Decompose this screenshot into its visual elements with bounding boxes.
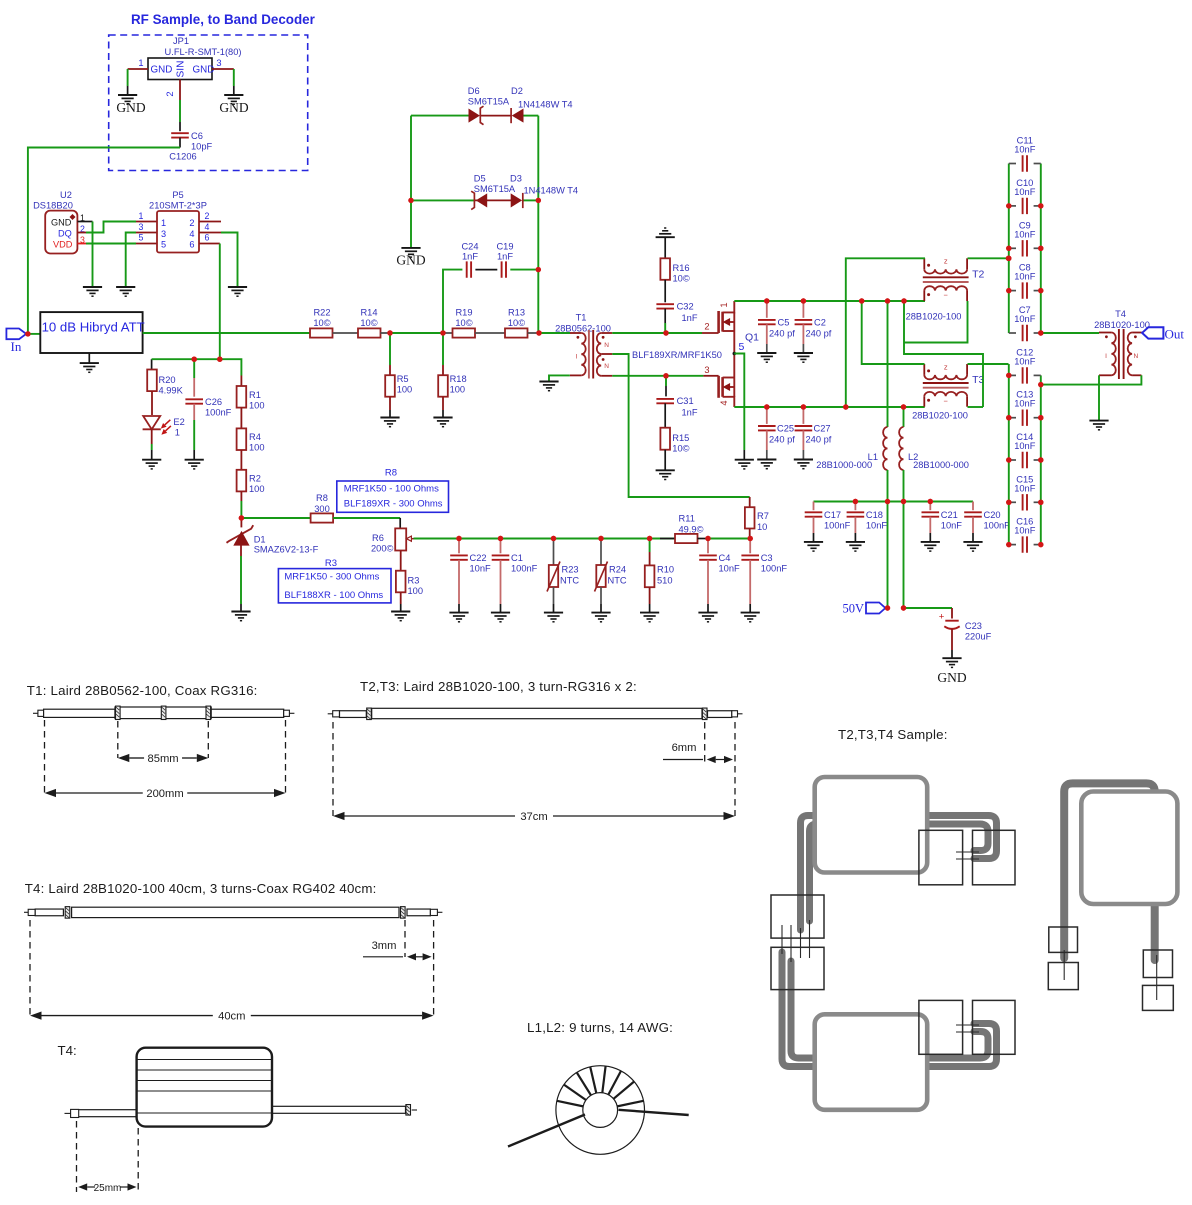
svg-text:10nF: 10nF (941, 521, 963, 531)
wire C32 to row (664, 309, 666, 323)
dimension T4 dashed lines (29, 920, 31, 1016)
junction 50V a (885, 605, 890, 610)
svg-text:6: 6 (205, 233, 210, 243)
wire JP1 pin3 (212, 68, 234, 70)
svg-text:JP1: JP1 (173, 36, 189, 46)
svg-text:T4: T4 (1115, 309, 1126, 319)
capacitor C24 1nF (467, 261, 471, 277)
port Out (1142, 327, 1163, 338)
svg-text:NTC: NTC (608, 576, 627, 586)
svg-text:100: 100 (450, 385, 466, 395)
ground Q1 source (735, 460, 754, 469)
resistor R13 10 (505, 328, 528, 337)
svg-text:6: 6 (189, 240, 194, 250)
svg-text:T2: T2 (972, 268, 984, 280)
wire top diode row (411, 115, 469, 117)
svg-text:10©: 10© (508, 318, 525, 328)
svg-text:100nF: 100nF (984, 521, 1011, 531)
resistor R10 510 (649, 539, 651, 553)
ground C3 (741, 613, 760, 622)
svg-text:10: 10 (757, 522, 767, 532)
svg-text:10nF: 10nF (1014, 526, 1036, 536)
svg-text:R6: R6 (372, 533, 384, 543)
junction bank2 right (1038, 500, 1043, 505)
resistor R3 100 (396, 571, 406, 593)
svg-text:D2: D2 (511, 86, 523, 96)
junction bank feed point (1006, 256, 1011, 261)
svg-text:10©: 10© (455, 318, 472, 328)
junction crossover node (901, 298, 906, 303)
capacitor C17 100nF (813, 502, 815, 511)
junction C31 node (663, 373, 668, 378)
svg-text:T2,T3,T4 Sample:: T2,T3,T4 Sample: (838, 727, 948, 742)
svg-text:200mm: 200mm (146, 788, 183, 800)
ground R3 (391, 612, 410, 621)
svg-text:Q1: Q1 (745, 332, 759, 344)
svg-text:C2: C2 (814, 318, 826, 328)
junction node C26 (192, 357, 197, 362)
svg-text:10nF: 10nF (1014, 145, 1036, 155)
drawing L1L2 toroid (508, 1066, 689, 1155)
wire lower bank left rail (1008, 364, 1010, 545)
wire decoupling row (814, 501, 904, 503)
svg-text:C3: C3 (761, 553, 773, 563)
resistor R20 4.99K (147, 370, 157, 392)
wire R22-R14 (333, 332, 359, 334)
svg-text:1N4148W T4: 1N4148W T4 (524, 185, 579, 195)
svg-text:100: 100 (408, 586, 424, 596)
wire gate2 row (666, 332, 702, 334)
svg-text:10nF: 10nF (1014, 314, 1036, 324)
ground T1 (539, 382, 558, 391)
diode D2 1N4148W (512, 109, 524, 123)
svg-text:U.FL-R-SMT-1(80): U.FL-R-SMT-1(80) (165, 47, 242, 57)
svg-text:R3: R3 (325, 558, 337, 569)
wire R15 to ground (664, 450, 666, 470)
ground C4 (698, 613, 717, 622)
capacitor C10 10nF (1009, 205, 1016, 207)
ground C5 (757, 353, 776, 362)
svg-text:100nF: 100nF (761, 564, 788, 574)
capacitor C18 10nF (854, 502, 856, 511)
wire D1 to ground (240, 545, 242, 557)
wire R16 to C32 (664, 280, 666, 303)
svg-text:1: 1 (138, 58, 143, 68)
svg-text:C18: C18 (866, 510, 883, 520)
junction R18 node (440, 330, 445, 335)
junction C2 (801, 298, 806, 303)
svg-text:1N4148W T4: 1N4148W T4 (518, 100, 573, 110)
svg-text:R23: R23 (562, 565, 579, 575)
svg-text:200©: 200© (371, 544, 394, 554)
wire L2 to 50V (903, 470, 905, 608)
svg-text:300: 300 (314, 504, 330, 514)
junction dots overlay (25, 198, 1043, 611)
wire upper bank right rail (1040, 164, 1042, 334)
dimension T1 dashed lines (44, 720, 46, 793)
svg-text:10nF: 10nF (1014, 272, 1036, 282)
svg-text:240 pf: 240 pf (769, 329, 795, 339)
capacitor C20 100nF (972, 502, 974, 511)
wire R8 row left (241, 517, 310, 519)
capacitor C13 10nF (1009, 417, 1016, 419)
transistor Q1 lower fet (704, 354, 734, 408)
drawing sample right assembly (1048, 783, 1177, 1010)
junction bias C3 (748, 536, 753, 541)
svg-text:10©: 10© (313, 318, 330, 328)
svg-text:T4:: T4: (58, 1043, 77, 1058)
junction C27 (801, 404, 806, 409)
svg-text:1nF: 1nF (497, 252, 513, 262)
wire L1 to 50V (887, 470, 889, 608)
T4 secondary coil (1128, 333, 1132, 376)
svg-text:10pF: 10pF (191, 142, 213, 152)
capacitor C1 100nF (500, 539, 502, 554)
svg-text:3: 3 (161, 229, 166, 239)
wire P5 pin4 to ground (199, 232, 221, 234)
svg-text:z: z (944, 257, 948, 266)
svg-text:4: 4 (205, 222, 210, 232)
wire R4-R2 (240, 450, 242, 470)
junction C19 rail (536, 267, 541, 272)
svg-text:BLF189XR/MRF1K50: BLF189XR/MRF1K50 (632, 350, 722, 360)
svg-text:C23: C23 (965, 621, 982, 631)
svg-text:1: 1 (175, 428, 180, 438)
drawing T1 coax (33, 706, 294, 719)
resistor R7 10 (745, 507, 755, 528)
svg-text:R18: R18 (450, 374, 467, 384)
ground U2 (83, 287, 102, 296)
ground C20 (963, 542, 982, 551)
T4 core (1119, 329, 1124, 379)
wire lower bank right rail (1040, 375, 1042, 544)
svg-text:D6: D6 (468, 86, 480, 96)
svg-text:R1: R1 (249, 390, 261, 400)
junction bank2 left (1006, 415, 1011, 420)
ground LED (142, 460, 161, 469)
capacitor C19 1nF (502, 261, 506, 277)
svg-text:U2: U2 (60, 190, 72, 200)
svg-text:3: 3 (704, 365, 709, 375)
ground C27 (794, 460, 813, 469)
wire T1 secondary bottom row (601, 375, 612, 377)
wire T3 lower-right tail (968, 406, 984, 408)
svg-text:T1: Laird 28B0562-100, Coax RG: T1: Laird 28B0562-100, Coax RG316: (27, 683, 258, 698)
svg-text:RF Sample, to Band Decoder: RF Sample, to Band Decoder (131, 12, 316, 27)
thermistor R23 NTC (553, 539, 555, 566)
wire T3 upper-left link (862, 301, 925, 364)
ground JP1 left (118, 95, 137, 104)
svg-text:D1: D1 (254, 535, 266, 545)
potentiometer R6 200 (395, 528, 406, 550)
svg-text:28B1020-100: 28B1020-100 (912, 411, 968, 421)
wire bank to T4 (1041, 332, 1099, 334)
junction L2 feed (901, 404, 906, 409)
svg-text:GND: GND (193, 65, 215, 76)
svg-text:C25: C25 (777, 424, 794, 434)
wire bias node row (151, 359, 153, 369)
ground T4 (1089, 421, 1108, 430)
resistor R4 100 (237, 428, 247, 450)
svg-text:R5: R5 (397, 374, 409, 384)
thermistor R24 NTC (600, 539, 602, 566)
wire T2 lower-right crossover (904, 301, 968, 343)
resistor R5 100 (389, 333, 391, 365)
wire T1 primary top lead (539, 332, 570, 334)
svg-text:100nF: 100nF (205, 408, 232, 418)
svg-text:220uF: 220uF (965, 632, 992, 642)
wire C6 to In node (179, 138, 181, 148)
svg-text:3mm: 3mm (372, 940, 397, 952)
wire T4 secondary to Out (1132, 332, 1142, 334)
svg-text:10 dB Hibryd ATT: 10 dB Hibryd ATT (42, 319, 145, 334)
connector JP1 (138, 36, 241, 97)
junction bank2 top left (1006, 373, 1011, 378)
wire L2 vertical (903, 407, 905, 427)
wire P5 pin3 to ground (136, 232, 157, 234)
svg-text:5: 5 (739, 341, 745, 353)
junction bank right (1038, 288, 1043, 293)
capacitor C3 100nF (749, 539, 751, 554)
ground JP1 right (224, 95, 243, 104)
ground P5 pin4 (228, 287, 247, 296)
svg-text:I: I (575, 354, 577, 361)
wire R20 to LED (151, 391, 153, 415)
dimension 37cm (345, 815, 516, 817)
wire R19-R13 (475, 332, 505, 334)
ground C26 (185, 460, 204, 469)
svg-text:240 pf: 240 pf (806, 435, 832, 445)
junction L1 feed (885, 298, 890, 303)
svg-text:MRF1K50 - 100 Ohms: MRF1K50 - 100 Ohms (344, 484, 439, 495)
transformer T3 28B1020-100 (912, 362, 984, 420)
svg-text:100: 100 (249, 443, 265, 453)
svg-text:N: N (604, 342, 609, 349)
svg-text:10nF: 10nF (1014, 187, 1036, 197)
capacitor C6 10pF (171, 133, 189, 137)
junction bank2 T4 node (1038, 382, 1043, 387)
svg-text:GND: GND (151, 65, 173, 76)
node 5 source (733, 352, 737, 356)
svg-text:GND: GND (219, 100, 248, 115)
svg-text:240 pf: 240 pf (769, 435, 795, 445)
wire R13 to T1 (528, 332, 540, 334)
svg-text:SM6T15A: SM6T15A (474, 184, 516, 194)
dashed box RF sample (109, 35, 308, 171)
junction bank right (1038, 203, 1043, 208)
wire diode left to ground (410, 200, 412, 247)
svg-text:10nF: 10nF (866, 521, 888, 531)
svg-text:T1: T1 (576, 313, 587, 323)
wire U2 DQ to P5 pin1 (77, 232, 86, 234)
svg-text:1nF: 1nF (462, 252, 478, 262)
svg-text:C1: C1 (511, 553, 523, 563)
wire T2 upper-left to drain2 (846, 258, 925, 407)
svg-text:D5: D5 (474, 174, 486, 184)
wire R2 to node (240, 491, 242, 501)
wire R11 to R7 (708, 538, 750, 540)
wire R3 to ground (400, 592, 402, 604)
junction C21 (928, 499, 933, 504)
junction T2 feed drain2 (843, 404, 848, 409)
capacitor C21 10nF (929, 502, 931, 511)
ground C21 (921, 542, 940, 551)
wire T3 upper-right to bank (968, 363, 1009, 365)
connector P5 210SMT-2*3P (139, 190, 210, 253)
svg-text:R10: R10 (657, 565, 674, 575)
svg-text:DQ: DQ (58, 229, 72, 239)
ground diodes (401, 248, 420, 257)
wire upper bank left rail (1008, 164, 1010, 334)
svg-text:R2: R2 (249, 474, 261, 484)
svg-text:R8: R8 (316, 493, 328, 503)
sensor U2 DS18B20 (33, 190, 85, 254)
svg-text:1: 1 (139, 211, 144, 221)
ground C2 (794, 353, 813, 362)
ground R10 (640, 613, 659, 622)
T1 core (588, 330, 590, 379)
ground C18 (846, 542, 865, 551)
T1 secondary upper (597, 333, 601, 354)
resistor R2 100 (237, 470, 247, 492)
svg-text:SM6T15A: SM6T15A (468, 97, 510, 107)
svg-text:P5: P5 (172, 190, 183, 200)
wire C24 branch (443, 270, 462, 333)
svg-text:240 pf: 240 pf (806, 329, 832, 339)
junction bias R24 (598, 536, 603, 541)
wire JP1 pin1 (128, 68, 148, 70)
capacitor C32 1nF (656, 304, 674, 308)
svg-text:GND: GND (396, 253, 425, 268)
svg-text:100nF: 100nF (511, 564, 538, 574)
svg-text:49.9©: 49.9© (679, 525, 704, 535)
svg-text:4: 4 (719, 400, 729, 405)
junction bank2 left (1006, 542, 1011, 547)
junction C18 (853, 499, 858, 504)
wire ATT ground stem (88, 353, 90, 363)
svg-text:1nF: 1nF (682, 408, 698, 418)
svg-text:50V: 50V (842, 602, 864, 616)
svg-text:E2: E2 (173, 417, 184, 427)
ground C17 (804, 542, 823, 551)
svg-text:R20: R20 (159, 375, 176, 385)
capacitor C4 10nF (707, 539, 709, 554)
svg-text:C24: C24 (461, 242, 478, 252)
junction bank left (1006, 246, 1011, 251)
ground R15 (656, 470, 675, 479)
svg-text:SIN: SIN (176, 61, 187, 78)
junction C32 node (663, 330, 668, 335)
svg-text:GND: GND (51, 218, 72, 228)
svg-text:SMAZ6V2-13-F: SMAZ6V2-13-F (254, 545, 319, 555)
wire P5 pin6 to bias node (199, 243, 220, 245)
svg-text:T2,T3: Laird 28B1020-100, 3 tu: T2,T3: Laird 28B1020-100, 3 turn-RG316 x… (360, 679, 637, 694)
svg-text:1: 1 (719, 302, 729, 307)
ground R24 (591, 613, 610, 622)
dimension 25mm dashed (76, 1121, 78, 1192)
wire diode loop left (537, 116, 539, 333)
junction L2 cap row (901, 499, 906, 504)
svg-text:28B1000-000: 28B1000-000 (913, 460, 969, 470)
wire T2 upper-right to bank (968, 257, 1009, 259)
ground D1 (231, 612, 250, 621)
wire LED to ground (151, 429, 153, 444)
svg-text:10©: 10© (673, 274, 690, 284)
dimension T2T3 dashed lines (332, 722, 334, 816)
svg-text:10©: 10© (360, 318, 377, 328)
svg-text:3: 3 (139, 222, 144, 232)
svg-text:C5: C5 (778, 318, 790, 328)
svg-text:1: 1 (161, 218, 166, 228)
junction bias C4 (705, 536, 710, 541)
svg-text:T4: Laird 28B1020-100 40cm, 3: T4: Laird 28B1020-100 40cm, 3 turns-Coax… (25, 881, 377, 896)
capacitor C8 10nF (1009, 290, 1016, 292)
resistor R14 10 (358, 328, 381, 337)
svg-text:37cm: 37cm (520, 811, 547, 823)
junction bias C1 (498, 536, 503, 541)
capacitor C15 10nF (1009, 501, 1016, 503)
junction bank2 right (1038, 457, 1043, 462)
wire R14 to node (381, 332, 391, 334)
junction bias R10 (647, 536, 652, 541)
junction 50V b (901, 605, 906, 610)
ground C23 (942, 658, 961, 667)
junction diode row left (408, 198, 413, 203)
T1 secondary lower (597, 355, 601, 376)
junction T3 link node (859, 298, 864, 303)
junction R8 node (239, 515, 244, 520)
wire L1 vertical (887, 301, 889, 427)
junction bias C22 (456, 536, 461, 541)
capacitor C31 1nF (665, 376, 667, 386)
svg-text:GND: GND (937, 670, 966, 685)
svg-text:4.99K: 4.99K (159, 386, 184, 396)
capacitor C2 240pf (802, 301, 804, 318)
wire source to ground (734, 354, 744, 451)
svg-text:R15: R15 (672, 433, 689, 443)
dimension 25mm (87, 1186, 95, 1188)
drawing T2T3 coax (328, 708, 743, 720)
capacitor C23 220uF (951, 608, 953, 619)
ground P5 pin3 (116, 287, 135, 296)
junction bank left (1006, 288, 1011, 293)
drawing T4 coax (24, 907, 442, 919)
capacitor C5 240pf (766, 301, 768, 318)
svg-text:DS18B20: DS18B20 (33, 201, 73, 211)
svg-text:C6: C6 (191, 131, 203, 141)
svg-text:3: 3 (216, 58, 221, 68)
svg-text:1nF: 1nF (682, 313, 698, 323)
svg-text:10nF: 10nF (719, 564, 741, 574)
wire drain1 row (734, 300, 925, 302)
block 10 dB Hybrid ATT (40, 312, 142, 353)
wire JP1 pin2 to C6 (179, 80, 181, 101)
diode D3 1N4148W (511, 193, 522, 207)
svg-text:R4: R4 (249, 432, 261, 442)
ground ATT (80, 363, 99, 372)
junction node P5 feed (217, 357, 222, 362)
capacitor C14 10nF (1009, 459, 1016, 461)
wire 50V to C23 (904, 607, 953, 609)
capacitor C9 10nF (1009, 247, 1016, 249)
capacitor C22 10nF (458, 539, 460, 554)
wire node row to R19 (390, 332, 443, 334)
ground C1 (491, 613, 510, 622)
svg-text:R22: R22 (313, 308, 330, 318)
svg-text:210SMT-2*3P: 210SMT-2*3P (149, 201, 207, 211)
wire In to ATT (28, 333, 40, 335)
svg-text:28B1020-100: 28B1020-100 (1094, 320, 1150, 330)
